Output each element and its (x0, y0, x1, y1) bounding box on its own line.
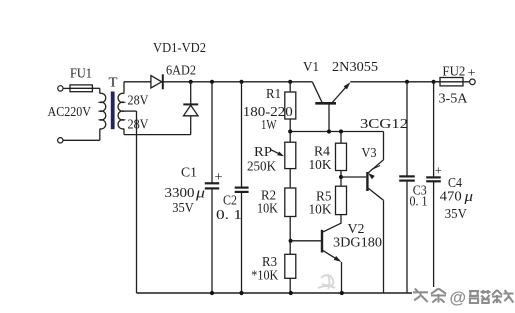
capacitor C2 (241, 82, 243, 188)
faint ghost watermark (318, 275, 335, 289)
wire center tap (124, 110, 137, 112)
node C1 bottom (210, 291, 214, 295)
svg-text:10K: 10K (309, 203, 332, 218)
svg-text:FU2: FU2 (442, 64, 465, 79)
node V1 base junction (327, 129, 331, 133)
node R3 bottom (289, 291, 293, 295)
svg-text:0. 1: 0. 1 (216, 208, 242, 223)
potentiometer RP (289, 132, 291, 143)
terminal lower AC input (58, 138, 63, 143)
wire RP to R2 (289, 169, 291, 188)
node C4 top (432, 80, 436, 84)
svg-text:2N3055: 2N3055 (332, 60, 378, 75)
wire FU1 to primary (92, 87, 99, 89)
wire mid horizontal (290, 131, 383, 133)
node C3 top (405, 80, 409, 84)
node R4 top junction (339, 129, 343, 133)
node V2 base junction (289, 239, 293, 243)
wire secondary bottom (123, 129, 125, 135)
svg-text:3300: 3300 (165, 186, 195, 201)
svg-text:*10K: *10K (251, 269, 278, 284)
node R1 top (288, 80, 292, 84)
node R4/R5/V3 junction (339, 175, 343, 179)
svg-text:RP: RP (254, 145, 272, 160)
wire top rail left (124, 81, 151, 83)
svg-text:0. 1: 0. 1 (410, 195, 428, 210)
svg-text:AC220V: AC220V (48, 105, 92, 120)
capacitor C1 (211, 82, 213, 184)
capacitor C4 (433, 82, 435, 178)
transistor V1 base bar (315, 102, 336, 105)
svg-text:VD1-VD2: VD1-VD2 (153, 41, 206, 56)
svg-text:35V: 35V (445, 207, 467, 222)
svg-text:28V: 28V (128, 94, 149, 109)
wire primary to lower terminal (99, 129, 101, 141)
node V2 emitter bottom (340, 291, 344, 295)
svg-text:T: T (109, 76, 118, 91)
wire VD2 cathode (190, 82, 192, 105)
fuse FU1 (70, 85, 92, 92)
capacitor C3 (406, 82, 408, 177)
svg-text:28V: 28V (128, 118, 149, 133)
transformer T secondary winding (118, 93, 124, 129)
svg-text:+: + (468, 65, 476, 80)
transistor V1 base lead (328, 103, 330, 131)
svg-text:1W: 1W (261, 118, 277, 133)
transistor V3 emitter lead (383, 132, 385, 160)
svg-text:3CG12: 3CG12 (360, 117, 408, 132)
transistor V3 collector lead (368, 188, 383, 200)
transistor V2 collector lead (323, 223, 342, 232)
resistor R3 (285, 254, 296, 278)
wire top rail middle (163, 81, 312, 83)
resistor R5 (340, 177, 342, 186)
svg-text:C2: C2 (223, 194, 237, 209)
node R1/RP junction (288, 129, 292, 133)
svg-text:10K: 10K (309, 158, 332, 173)
node C1 top (210, 80, 214, 84)
svg-text:V3: V3 (362, 146, 377, 161)
svg-text:470: 470 (440, 190, 462, 205)
svg-text:35V: 35V (172, 201, 194, 216)
wire to V3 base (341, 176, 366, 178)
node rectifier output (189, 80, 193, 84)
svg-text:FU1: FU1 (70, 66, 92, 81)
diode VD1 (151, 76, 162, 88)
wire terminal to FU1 (63, 87, 70, 89)
svg-text:6AD2: 6AD2 (166, 64, 196, 79)
wire V2 base (291, 240, 321, 242)
terminal output (470, 79, 476, 85)
transformer T primary winding (100, 93, 106, 129)
transistor V2 emitter lead (323, 251, 340, 261)
wire secondary top to rail (123, 82, 125, 94)
svg-text:250K: 250K (247, 160, 276, 175)
svg-text:μ: μ (463, 189, 473, 205)
terminal upper AC input (58, 86, 63, 91)
svg-text:3DG180: 3DG180 (333, 235, 382, 250)
svg-text:10K: 10K (257, 202, 278, 217)
svg-text:V1: V1 (303, 60, 319, 75)
transistor V3 base bar (366, 172, 368, 191)
svg-text:3-5A: 3-5A (439, 92, 469, 107)
watermark toutiao (413, 288, 515, 308)
svg-text:C1: C1 (181, 165, 197, 180)
svg-text:R1: R1 (266, 87, 281, 102)
resistor R2 (285, 188, 296, 217)
transformer T core (111, 92, 115, 130)
transistor V1 collector lead (312, 82, 322, 103)
wire top rail right (350, 81, 440, 83)
wire bottom rail (137, 292, 413, 294)
node C2 bottom (239, 291, 243, 295)
svg-text:μ: μ (195, 186, 205, 202)
node C2 top (239, 80, 243, 84)
svg-text:+: + (435, 163, 442, 178)
resistor R4 (340, 132, 342, 144)
transistor V1 emitter lead (332, 84, 349, 103)
fuse FU2 (440, 78, 463, 86)
diode VD2 (183, 103, 198, 105)
transistor V2 base bar (321, 230, 323, 253)
svg-text:+: + (215, 168, 223, 183)
svg-text:@: @ (450, 288, 467, 307)
resistor R1 (289, 82, 291, 92)
